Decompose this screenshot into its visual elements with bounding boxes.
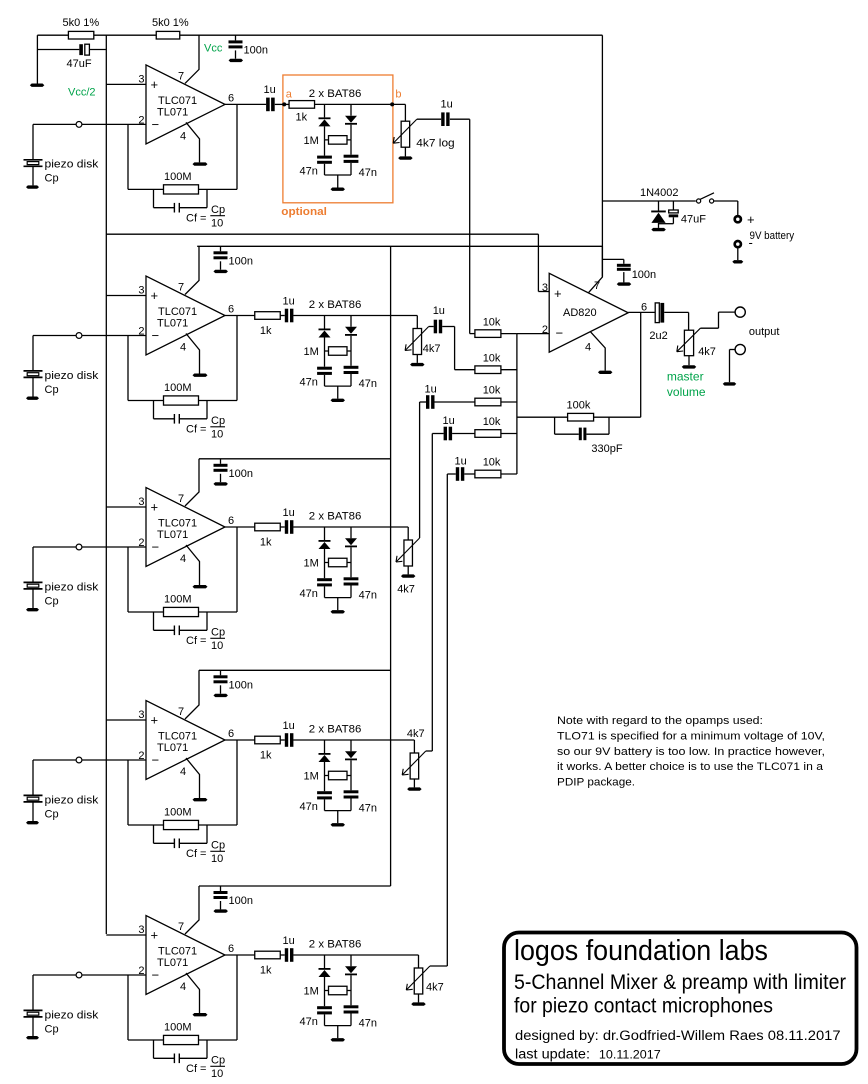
wire pot to ground (ch1) — [404, 147, 406, 156]
wire 1k to 1u (ch3) — [280, 526, 285, 528]
capacitor Cf (ch2) — [173, 414, 175, 424]
wire pin 4 to ground (ch1) — [186, 122, 200, 162]
capacitor 1u to mixer (ch4) — [444, 427, 447, 441]
svg-text:1u: 1u — [425, 384, 437, 396]
wire Cf loop (ch3) — [153, 612, 155, 630]
svg-text:100n: 100n — [229, 895, 253, 907]
svg-text:−: − — [152, 540, 160, 555]
wire 1u to 10k row4 — [452, 433, 475, 435]
diode BAT86 left (ch2) — [324, 316, 326, 329]
svg-text:100M: 100M — [164, 1022, 192, 1034]
svg-text:1M: 1M — [304, 346, 319, 358]
ground output jack — [723, 382, 737, 385]
resistor 1M (ch2) — [329, 347, 348, 356]
wire +in from Vcc/2 bus (ch1) — [106, 83, 146, 85]
svg-text:TLC071: TLC071 — [158, 518, 197, 530]
svg-text:Cp: Cp — [211, 840, 225, 852]
svg-text:100n: 100n — [229, 679, 253, 691]
ground pin 4 (ch3) — [193, 585, 208, 588]
svg-text:10: 10 — [211, 429, 223, 441]
svg-text:+: + — [151, 928, 159, 943]
svg-text:piezo disk: piezo disk — [45, 581, 99, 593]
ground limiter (ch3) — [331, 610, 346, 613]
capacitor 1u to mixer (ch2) — [434, 320, 437, 334]
diode BAT86 right (ch4) — [350, 740, 352, 751]
svg-text:100n: 100n — [244, 45, 268, 57]
resistor 10k row 4 — [475, 430, 501, 438]
potentiometer 4k7 (ch3) — [404, 540, 413, 566]
svg-text:7: 7 — [178, 493, 184, 505]
svg-text:1k: 1k — [260, 325, 272, 337]
wire Vcc/2 rail to AD820 — [106, 233, 538, 235]
svg-text:3: 3 — [138, 496, 144, 508]
svg-text:4k7: 4k7 — [423, 343, 441, 355]
ground 100n (ch2) — [213, 270, 228, 273]
wire wiper up to mixer (ch4) — [426, 750, 433, 752]
svg-text:4k7: 4k7 — [426, 982, 444, 994]
wire input to op-amp -in (ch4) — [82, 759, 146, 761]
op-amp TLC071 (ch4) — [146, 701, 225, 780]
piezo disk Cp (ch5) — [33, 974, 76, 976]
ground piezo (ch1) — [26, 185, 39, 188]
svg-text:AD820: AD820 — [563, 307, 597, 319]
svg-text:TLC071: TLC071 — [158, 731, 197, 743]
wire AD820 output — [628, 311, 655, 313]
svg-text:−: − — [556, 325, 564, 340]
node battery + terminal — [735, 216, 741, 222]
capacitor 47n left (ch1) — [324, 140, 326, 156]
svg-text:Note with regard to the opamps: Note with regard to the opamps used: — [557, 715, 763, 727]
svg-text:47n: 47n — [300, 588, 318, 600]
svg-text:Cp: Cp — [45, 808, 59, 820]
svg-text:7: 7 — [178, 70, 184, 82]
wire +in from Vcc/2 bus (ch4) — [106, 719, 146, 721]
wire a to 1k (ch1) — [275, 103, 289, 105]
wire pin 7 to Vcc rail (ch5) — [185, 886, 199, 934]
wire 1k to 1u (ch2) — [280, 315, 285, 317]
svg-text:6: 6 — [228, 943, 234, 955]
diode BAT86 right (ch5) — [350, 955, 352, 966]
svg-text:2: 2 — [138, 965, 144, 977]
resistor 1M (ch3) — [329, 558, 348, 567]
capacitor 47n right (ch3) — [350, 563, 352, 578]
wire 1k to 1u (ch5) — [280, 954, 285, 956]
wire input to op-amp -in (ch1) — [82, 123, 146, 125]
svg-text:TL071: TL071 — [157, 106, 188, 118]
svg-text:7: 7 — [178, 282, 184, 294]
resistor 100M feedback (ch1) — [164, 185, 199, 194]
svg-text:7: 7 — [178, 921, 184, 933]
svg-text:47n: 47n — [359, 803, 377, 815]
fraction bar (ch4) — [210, 850, 225, 852]
svg-text:last update:: last update: — [515, 1047, 590, 1062]
diode BAT86 right (ch1) — [350, 104, 352, 115]
svg-text:TLC071: TLC071 — [158, 306, 197, 318]
svg-text:100n: 100n — [229, 468, 253, 480]
ground limiter (ch5) — [331, 1038, 346, 1041]
svg-text:4k7 log: 4k7 log — [416, 138, 454, 150]
ground divider — [30, 84, 44, 87]
wire input to op-amp -in (ch3) — [82, 546, 146, 548]
wire pin 4 to ground (ch2) — [186, 334, 200, 374]
capacitor 1u coupling (ch2) — [285, 309, 288, 323]
wire jack sleeve to ground — [730, 349, 735, 351]
node input terminal (ch3) — [76, 544, 82, 550]
svg-text:3: 3 — [138, 73, 144, 85]
diode 1N4002 — [658, 201, 660, 211]
svg-text:1M: 1M — [304, 771, 319, 783]
op-amp TLC071 (ch3) — [146, 488, 225, 567]
svg-text:10: 10 — [211, 217, 223, 229]
svg-text:−: − — [152, 753, 160, 768]
svg-text:Cp: Cp — [45, 595, 59, 607]
svg-text:2u2: 2u2 — [649, 330, 667, 342]
switch SW1 — [697, 199, 701, 203]
capacitor 2u2 output polarized — [655, 303, 659, 323]
resistor 1k (ch1) — [289, 101, 315, 109]
svg-text:1u: 1u — [283, 507, 295, 519]
capacitor 47n right (ch2) — [350, 351, 352, 366]
wire pot to ground (ch5) — [418, 994, 420, 1002]
svg-text:+: + — [151, 713, 159, 728]
svg-text:47n: 47n — [300, 165, 318, 177]
wire summing bus — [516, 334, 518, 474]
svg-text:10k: 10k — [483, 352, 501, 364]
wire 47n common to ground (ch5) — [325, 1025, 352, 1027]
wire pin6 to 1k (ch4) — [225, 739, 255, 741]
svg-text:+: + — [747, 212, 755, 227]
wire Cf loop (ch1) — [153, 189, 155, 207]
resistor 10k row 5 — [475, 470, 501, 478]
wire Vcc rail ch4 — [199, 669, 391, 671]
ground pin 4 (ch1) — [193, 162, 208, 165]
svg-text:PDIP package.: PDIP package. — [557, 777, 635, 789]
svg-text:2 x BAT86: 2 x BAT86 — [309, 299, 362, 311]
wire pin 7 to Vcc rail (ch1) — [185, 35, 199, 83]
ground pot (ch2) — [410, 363, 425, 366]
svg-text:+: + — [151, 288, 159, 303]
ground pot (ch4) — [407, 787, 422, 790]
wire wiper to 1u (ch2) — [429, 326, 434, 328]
svg-text:−: − — [152, 117, 160, 132]
svg-text:330pF: 330pF — [591, 443, 622, 455]
potentiometer 4k7 (ch2) — [413, 329, 422, 355]
svg-text:5k0 1%: 5k0 1% — [63, 17, 100, 29]
svg-text:1M: 1M — [304, 135, 319, 147]
wire feedback loop (ch5) — [127, 975, 129, 1040]
wire 100k to output node — [594, 416, 641, 418]
optional box (dotted orange) — [283, 75, 393, 203]
svg-text:10k: 10k — [483, 316, 501, 328]
svg-text:100M: 100M — [164, 382, 192, 394]
svg-text:Vcc/2: Vcc/2 — [68, 87, 96, 99]
wire 1u to 10k row3 — [435, 401, 475, 403]
capacitor 1u to mixer (ch5) — [456, 467, 459, 481]
svg-text:4k7: 4k7 — [397, 584, 415, 596]
svg-text:100n: 100n — [229, 255, 253, 267]
resistor 1k (ch4) — [255, 736, 281, 744]
svg-text:2: 2 — [542, 324, 548, 336]
ground 1N4002 — [651, 228, 666, 231]
ground limiter (ch4) — [331, 823, 346, 826]
wire 2u2 to master pot — [664, 311, 688, 313]
ground pot (ch5) — [411, 1002, 426, 1005]
svg-text:Cp: Cp — [45, 173, 59, 185]
wire pin 7 to Vcc rail (ch4) — [185, 670, 199, 719]
wire Vcc/2 bus vertical — [105, 35, 107, 934]
wire +in from Vcc/2 bus (ch3) — [106, 506, 146, 508]
svg-text:47uF: 47uF — [67, 58, 92, 70]
wire 1M leads (ch1) — [325, 139, 352, 141]
svg-text:it works. A better choice is t: it works. A better choice is to use the … — [557, 761, 824, 773]
node input terminal (ch5) — [76, 972, 82, 978]
wire 1M leads (ch2) — [325, 350, 352, 352]
resistor 1M (ch1) — [329, 136, 348, 145]
svg-text:Cp: Cp — [211, 1055, 225, 1067]
capacitor 100n ch1 decoupling — [235, 35, 237, 40]
svg-text:−: − — [152, 968, 160, 983]
svg-text:for piezo contact microphones: for piezo contact microphones — [514, 994, 773, 1018]
svg-text:100k: 100k — [567, 400, 591, 412]
svg-text:Cp: Cp — [211, 627, 225, 639]
wire 47n common to ground (ch1) — [325, 174, 352, 176]
svg-text:1u: 1u — [455, 456, 467, 468]
svg-text:6: 6 — [228, 728, 234, 740]
potentiometer 4k7 (ch4) — [410, 753, 419, 779]
capacitor 1u to mixer (ch1) — [441, 112, 444, 126]
wire 1k to 1u (ch4) — [280, 739, 285, 741]
wire pin6 to 1u (ch1) — [225, 103, 266, 105]
resistor 100M feedback (ch3) — [164, 607, 199, 616]
wire wiper to 1u (ch1) — [417, 118, 441, 120]
capacitor 47uF polarized (battery) — [672, 201, 674, 210]
svg-text:6: 6 — [228, 304, 234, 316]
capacitor 100n decoupling (ch5) — [220, 886, 222, 891]
svg-text:output: output — [749, 326, 780, 338]
capacitor 1u to mixer (ch3) — [426, 395, 429, 409]
wire 1u to 10k row5 — [464, 473, 475, 475]
svg-text:TL071: TL071 — [157, 957, 188, 969]
wire feedback loop (ch3) — [127, 547, 129, 612]
svg-text:3: 3 — [138, 924, 144, 936]
svg-text:master: master — [667, 370, 704, 384]
capacitor 330pF — [579, 428, 582, 441]
capacitor 100n decoupling (ch4) — [220, 670, 222, 675]
wire AD820 +in drop — [537, 234, 539, 291]
wire pot drop (ch1) — [404, 104, 406, 121]
svg-text:5-Channel Mixer & preamp with: 5-Channel Mixer & preamp with limiter — [514, 970, 846, 994]
ground pot (ch1) — [398, 156, 413, 159]
svg-text:100n: 100n — [632, 269, 656, 281]
potentiometer 4k7 log (ch1) — [401, 121, 410, 147]
wire pin 4 to ground (ch5) — [186, 973, 200, 1013]
svg-text:1k: 1k — [296, 112, 308, 124]
wire pot drop (ch4) — [413, 740, 415, 753]
ground 100n AD820 — [617, 282, 632, 285]
wire Cf loop (ch2) — [153, 401, 155, 419]
wire switch to battery — [714, 200, 738, 202]
svg-text:4k7: 4k7 — [698, 346, 716, 358]
capacitor 100n decoupling (ch2) — [220, 246, 222, 251]
capacitor 47n left (ch3) — [324, 563, 326, 579]
svg-text:7: 7 — [594, 280, 600, 292]
wire +in from Vcc/2 bus (ch2) — [106, 295, 146, 297]
svg-text:+: + — [554, 286, 562, 301]
wire Cf loop (ch4) — [153, 825, 155, 843]
svg-text:100M: 100M — [164, 594, 192, 606]
svg-text:4: 4 — [180, 766, 186, 778]
svg-text:Cp: Cp — [45, 384, 59, 396]
svg-text:piezo disk: piezo disk — [45, 159, 99, 171]
svg-text:4: 4 — [180, 981, 186, 993]
svg-text:1u: 1u — [441, 99, 453, 111]
capacitor 1u coupling (ch3) — [285, 520, 288, 534]
svg-text:1u: 1u — [433, 305, 445, 317]
svg-text:10.11.2017: 10.11.2017 — [599, 1048, 661, 1062]
capacitor 47n left (ch5) — [324, 991, 326, 1007]
wire top Vcc rail from divider to right vertical — [37, 34, 602, 36]
wire limiter node to pot (ch4) — [293, 739, 414, 741]
ground limiter (ch1) — [331, 188, 346, 191]
capacitor 100n decoupling (ch3) — [220, 459, 222, 464]
wire +in from Vcc/2 bus (ch5) — [106, 934, 146, 936]
diode BAT86 right (ch3) — [350, 527, 352, 538]
svg-text:-: - — [749, 235, 753, 250]
capacitor Cf (ch5) — [173, 1054, 175, 1064]
node input terminal (ch4) — [76, 757, 82, 763]
svg-text:1k: 1k — [260, 965, 272, 977]
diode BAT86 left (ch4) — [324, 740, 326, 753]
svg-text:10k: 10k — [483, 385, 501, 397]
wire 47uF branch — [37, 49, 79, 51]
node input terminal (ch2) — [76, 333, 82, 339]
svg-text:TLC071: TLC071 — [158, 946, 197, 958]
svg-text:6: 6 — [228, 92, 234, 104]
wire input to op-amp -in (ch5) — [82, 974, 146, 976]
wire 1M leads (ch4) — [325, 775, 352, 777]
svg-text:4k7: 4k7 — [407, 728, 425, 740]
svg-text:10k: 10k — [483, 457, 501, 469]
svg-text:47n: 47n — [359, 167, 377, 179]
svg-text:2: 2 — [138, 114, 144, 126]
svg-text:1u: 1u — [283, 720, 295, 732]
svg-text:1u: 1u — [283, 935, 295, 947]
wire battery minus to ground — [737, 248, 739, 261]
svg-text:100M: 100M — [164, 171, 192, 183]
node a (orange label) — [282, 102, 286, 106]
node input terminal (ch1) — [76, 122, 82, 128]
resistor 100M feedback (ch4) — [164, 820, 199, 829]
wire pin6 to 1k (ch5) — [225, 954, 255, 956]
resistor 1k (ch2) — [255, 312, 281, 320]
fraction bar (ch3) — [210, 637, 225, 639]
wire limiter node to pot (ch5) — [293, 954, 418, 956]
capacitor 100n AD820 — [602, 258, 623, 260]
diode BAT86 right (ch2) — [350, 316, 352, 327]
svg-text:TL071: TL071 — [157, 529, 188, 541]
wire Vcc rail ch5 — [199, 885, 391, 887]
wire limiter node to pot (ch3) — [293, 526, 408, 528]
svg-text:Cp: Cp — [45, 1023, 59, 1035]
op-amp TLC071 (ch2) — [146, 276, 225, 355]
wire pin 7 AD820 — [589, 246, 603, 292]
svg-text:1M: 1M — [304, 558, 319, 570]
resistor 100k feedback — [568, 413, 594, 421]
svg-text:a: a — [286, 89, 293, 101]
ground 100n (ch5) — [213, 909, 228, 912]
capacitor 47n right (ch5) — [350, 991, 352, 1006]
svg-text:2 x BAT86: 2 x BAT86 — [309, 939, 362, 951]
ground 100n ch1 — [229, 59, 244, 62]
wire pin6 to 1k (ch2) — [225, 315, 255, 317]
title box — [504, 933, 857, 1065]
wire 47n common to ground (ch3) — [325, 597, 352, 599]
node output jack sleeve — [735, 344, 745, 354]
wire 1M leads (ch5) — [325, 990, 352, 992]
svg-text:−: − — [152, 328, 160, 343]
svg-text:10: 10 — [211, 640, 223, 652]
svg-text:47n: 47n — [359, 378, 377, 390]
fraction bar (ch5) — [210, 1065, 225, 1067]
svg-text:4: 4 — [585, 342, 591, 354]
svg-text:TLC071: TLC071 — [158, 95, 197, 107]
svg-text:2: 2 — [138, 537, 144, 549]
svg-text:10: 10 — [211, 1068, 223, 1080]
svg-text:Cf =: Cf = — [186, 212, 206, 224]
svg-text:1u: 1u — [264, 84, 276, 96]
svg-text:piezo disk: piezo disk — [45, 794, 99, 806]
wire input to op-amp -in (ch2) — [82, 335, 146, 337]
wire Vcc rail ch3 — [199, 458, 391, 460]
svg-text:47n: 47n — [300, 377, 318, 389]
ground pin 4 (ch2) — [193, 374, 208, 377]
op-amp TLC071 (ch1) — [146, 65, 225, 144]
ground limiter (ch2) — [331, 399, 346, 402]
svg-text:designed by: dr.Godfried-Wille: designed by: dr.Godfried-Willem Raes 08.… — [515, 1028, 841, 1043]
svg-text:4: 4 — [180, 130, 186, 142]
diode BAT86 left (ch5) — [324, 955, 326, 968]
svg-text:100M: 100M — [164, 807, 192, 819]
svg-text:optional: optional — [281, 206, 327, 218]
wire feedback tap — [517, 416, 569, 418]
capacitor Cf (ch3) — [173, 626, 175, 636]
svg-text:9V battery: 9V battery — [750, 230, 795, 242]
svg-text:1k: 1k — [260, 537, 272, 549]
svg-text:TLO71 is specified for a minim: TLO71 is specified for a minimum voltage… — [557, 730, 825, 742]
wire pin 4 to ground (ch3) — [186, 545, 200, 585]
svg-text:3: 3 — [138, 285, 144, 297]
wire pin 7 to Vcc rail (ch2) — [185, 246, 199, 294]
capacitor 1u coupling (ch5) — [285, 948, 288, 962]
wire main Vcc rail (ch2 row) — [197, 245, 602, 247]
svg-text:piezo disk: piezo disk — [45, 370, 99, 382]
wire Cf loop (ch5) — [153, 1040, 155, 1058]
wire summing bus to AD820 -in — [517, 333, 549, 335]
wire pin 7 to Vcc rail (ch3) — [185, 459, 199, 506]
wire pot drop (ch3) — [407, 527, 409, 540]
resistor 100M feedback (ch5) — [164, 1035, 199, 1044]
wire 47n common to ground (ch2) — [325, 385, 352, 387]
svg-text:7: 7 — [178, 706, 184, 718]
wire pot to ground (ch3) — [407, 566, 409, 574]
diode BAT86 left (ch3) — [324, 527, 326, 540]
ground piezo (ch2) — [26, 397, 39, 400]
ground piezo (ch4) — [26, 821, 39, 824]
svg-text:47n: 47n — [359, 590, 377, 602]
wire pot drop (ch2) — [416, 316, 418, 329]
ground pin 4 (ch5) — [193, 1013, 208, 1016]
wire divider ground drop — [36, 35, 38, 83]
